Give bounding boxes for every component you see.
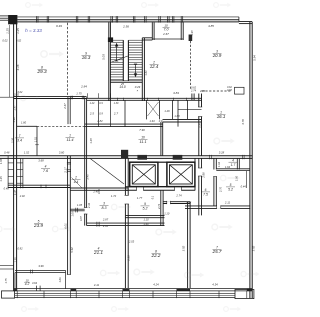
svg-text:5.92: 5.92 [70,247,74,253]
svg-text:16.1: 16.1 [217,114,226,119]
svg-text:5.92: 5.92 [181,245,185,251]
svg-text:3.64: 3.64 [32,281,38,285]
svg-text:1.25: 1.25 [5,28,9,34]
svg-text:1.26: 1.26 [164,109,170,113]
svg-text:7.0: 7.0 [164,28,169,32]
svg-text:20.9: 20.9 [212,53,222,58]
svg-text:16.3: 16.3 [82,55,91,60]
svg-text:1.75: 1.75 [76,91,82,95]
svg-text:9: 9 [144,202,146,206]
svg-text:3.4: 3.4 [17,139,22,143]
svg-text:7: 7 [19,134,21,138]
svg-text:1.75: 1.75 [4,278,8,284]
svg-text:0.46: 0.46 [4,187,10,191]
svg-text:1.97: 1.97 [12,105,16,111]
svg-text:2.56: 2.56 [122,25,129,29]
svg-text:1.04: 1.04 [217,161,221,167]
svg-text:3.96: 3.96 [38,264,44,268]
svg-text:2.70: 2.70 [218,186,222,193]
svg-text:4.2: 4.2 [25,282,30,286]
svg-text:2.02: 2.02 [19,194,26,198]
svg-text:2.95: 2.95 [102,224,109,228]
svg-text:7.6: 7.6 [43,169,49,173]
svg-text:8.3: 8.3 [102,206,107,210]
svg-text:2.87: 2.87 [102,218,109,222]
svg-text:0.68: 0.68 [227,89,232,92]
svg-text:7.90: 7.90 [139,128,145,132]
svg-text:0.02: 0.02 [2,39,8,43]
svg-text:1.48: 1.48 [89,138,93,144]
svg-text:1.35: 1.35 [0,176,3,182]
svg-text:2.74: 2.74 [190,89,197,93]
svg-text:1: 1 [69,134,71,138]
svg-text:29.3: 29.3 [36,69,47,75]
svg-text:1.10: 1.10 [164,212,170,216]
svg-text:5.03: 5.03 [102,54,106,60]
svg-text:0.68: 0.68 [13,117,16,122]
svg-text:1.40: 1.40 [143,222,149,226]
svg-text:0.02: 0.02 [18,91,23,94]
svg-text:1.64: 1.64 [225,165,231,169]
svg-text:12.4: 12.4 [150,64,159,69]
svg-text:5.94: 5.94 [252,55,256,61]
svg-text:1.24: 1.24 [90,102,95,105]
svg-text:1.95: 1.95 [0,158,3,164]
svg-text:1.7: 1.7 [231,163,236,167]
svg-text:0.1: 0.1 [151,195,154,199]
svg-text:1.34: 1.34 [149,119,155,123]
svg-text:1.39: 1.39 [114,102,119,105]
svg-text:1.60: 1.60 [21,121,27,125]
svg-text:2.26: 2.26 [11,137,15,144]
svg-text:4.34: 4.34 [212,282,218,286]
svg-text:10: 10 [141,136,145,140]
svg-text:3.84: 3.84 [173,91,179,95]
svg-text:0.48: 0.48 [4,151,10,155]
svg-text:2.67: 2.67 [162,32,169,36]
svg-text:2.17: 2.17 [63,167,67,174]
svg-text:1.05: 1.05 [77,203,83,207]
svg-text:4.11: 4.11 [94,283,100,287]
svg-text:1.52: 1.52 [24,151,30,155]
svg-text:2.11: 2.11 [224,201,231,205]
svg-text:0.90: 0.90 [97,188,101,194]
svg-text:0.9: 0.9 [159,119,163,123]
svg-text:2.5: 2.5 [89,112,95,116]
svg-text:5: 5 [230,183,232,187]
svg-text:6.49: 6.49 [56,24,62,28]
svg-text:4.24: 4.24 [153,282,159,286]
svg-text:2.82: 2.82 [96,119,103,123]
svg-text:0.9: 0.9 [99,112,103,116]
svg-text:1.60: 1.60 [174,114,180,118]
svg-text:2.76: 2.76 [199,89,206,93]
svg-text:22.2: 22.2 [151,253,161,258]
svg-text:1.51: 1.51 [35,136,38,141]
svg-text:2.74: 2.74 [157,203,161,210]
svg-text:2.74: 2.74 [175,193,182,197]
svg-text:8: 8 [41,66,43,70]
svg-text:1.10: 1.10 [143,218,149,222]
svg-text:11.4: 11.4 [66,138,73,142]
svg-text:2.44: 2.44 [87,202,91,209]
svg-text:0.02: 0.02 [16,39,22,43]
svg-text:2.30: 2.30 [127,255,131,262]
svg-text:3.28: 3.28 [219,150,225,154]
svg-text:25.7: 25.7 [212,249,222,254]
svg-text:5.2: 5.2 [143,207,148,211]
svg-text:1.25: 1.25 [16,28,20,34]
svg-text:1.47: 1.47 [13,189,17,195]
svg-text:3: 3 [103,202,105,206]
svg-text:1.61: 1.61 [144,70,148,76]
svg-text:4.78: 4.78 [241,119,245,125]
svg-text:1.77: 1.77 [137,196,143,200]
svg-text:4: 4 [45,165,47,169]
svg-text:25: 25 [120,82,124,86]
svg-text:1.60: 1.60 [58,277,62,283]
svg-text:0.9: 0.9 [99,102,103,105]
svg-text:1.08: 1.08 [70,211,74,217]
svg-text:11.1: 11.1 [139,140,146,144]
svg-text:3.40: 3.40 [86,174,90,180]
svg-text:6.01: 6.01 [64,223,68,229]
svg-text:0.92: 0.92 [17,247,23,251]
svg-text:2.66: 2.66 [202,172,206,179]
svg-text:6: 6 [205,188,207,192]
svg-text:2.47: 2.47 [63,103,67,110]
svg-text:4.4: 4.4 [74,180,79,184]
svg-text:3.60: 3.60 [59,151,65,155]
svg-text:0.87: 0.87 [79,215,83,221]
svg-text:0.30: 0.30 [198,123,201,128]
svg-text:2.84: 2.84 [80,85,87,89]
svg-text:2.03: 2.03 [128,240,135,244]
svg-text:5.2: 5.2 [228,188,233,192]
svg-text:21.1: 21.1 [93,250,103,255]
svg-text:1.25: 1.25 [13,257,17,263]
svg-text:23.9: 23.9 [33,223,43,228]
svg-text:4: 4 [232,158,234,162]
svg-text:4.16: 4.16 [16,64,20,70]
svg-text:4.85: 4.85 [208,24,214,28]
svg-text:2: 2 [74,176,77,180]
svg-text:1.98: 1.98 [190,30,194,36]
svg-text:3.88: 3.88 [186,201,192,205]
svg-text:7.5: 7.5 [203,193,208,197]
svg-text:h = 3.33: h = 3.33 [25,28,42,33]
svg-text:0.44: 0.44 [241,184,247,188]
svg-text:5.92: 5.92 [251,245,255,251]
svg-text:2.7: 2.7 [113,112,119,116]
svg-text:1.72: 1.72 [111,194,117,198]
svg-text:3.68: 3.68 [38,159,44,163]
